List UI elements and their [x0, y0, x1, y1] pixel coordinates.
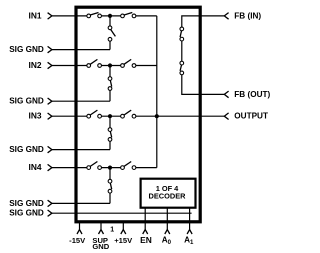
wire IN3 input [52, 115, 87, 117]
pin -15V wire [79, 222, 81, 230]
wire shunt to SIG GND 1 [109, 41, 111, 49]
svg-text:DECODER: DECODER [149, 191, 187, 200]
svg-text:SIG GND: SIG GND [9, 45, 44, 54]
svg-text:GND: GND [92, 242, 109, 251]
wire SIG GND 3 [52, 149, 110, 151]
wire shunt to SIG GND 3 [109, 141, 111, 149]
svg-text:1: 1 [110, 226, 114, 233]
wire row 2 mid [101, 65, 120, 67]
switch S5a (feedback) [180, 27, 184, 41]
pin +15V arrow [121, 230, 126, 234]
svg-text:IN4: IN4 [29, 162, 42, 172]
node row 1 junction [108, 14, 112, 18]
svg-text:SIG GND: SIG GND [9, 199, 44, 208]
pin A1 arrow [187, 230, 192, 234]
wire shunt stub row 2 [109, 66, 111, 77]
wire FB (OUT) [182, 75, 225, 95]
svg-text:IN2: IN2 [29, 60, 42, 70]
wire row 3 mid [101, 115, 120, 117]
switch S1b (series, output side) [121, 13, 136, 18]
terminal SIG GND 2 arrow [48, 98, 52, 104]
switch S3b (series, output side) [121, 110, 136, 118]
switch S4b (series, output side) [121, 162, 136, 170]
svg-text:+15V: +15V [114, 236, 133, 245]
pin A1 wire [189, 208, 191, 230]
wire shunt stub row 4 [109, 168, 111, 180]
switch S4c (shunt to SIG GND) [108, 179, 112, 193]
terminal SIG GND 5 arrow [48, 210, 52, 216]
wire output bus vertical [156, 16, 158, 168]
switch S1c (shunt to SIG GND) [108, 26, 115, 41]
terminal IN1 arrow [48, 13, 52, 19]
switch S2c (shunt to SIG GND) [108, 77, 112, 91]
wire OUTPUT [157, 115, 225, 117]
svg-text:IN1: IN1 [29, 10, 42, 20]
terminal IN2 arrow [48, 62, 52, 68]
svg-text:EN: EN [140, 235, 152, 245]
wire shunt stub row 3 [109, 116, 111, 128]
pin EN arrow [143, 230, 148, 234]
svg-text:OUTPUT: OUTPUT [234, 111, 268, 120]
wire SIG GND 1 [52, 49, 110, 51]
node row 3 junction [108, 114, 112, 118]
switch S3c (shunt to SIG GND) [108, 128, 112, 141]
svg-text:IN3: IN3 [29, 111, 42, 121]
decoder U1 box [141, 179, 196, 208]
node output junction [155, 114, 159, 118]
node row 4 junction [108, 166, 112, 170]
wire SIG GND 5 bus [52, 212, 192, 214]
node row 2 junction [108, 63, 112, 67]
wire row 2 to output bus [136, 65, 157, 67]
wire shunt to SIG GND 2 [109, 90, 111, 101]
pin +15V wire [122, 222, 124, 230]
pin SUP GND arrow [99, 230, 104, 234]
pin A0 arrow [165, 230, 170, 234]
svg-text:-15V: -15V [69, 236, 86, 245]
switch S3a (series, input side) [87, 110, 102, 118]
pin A0 wire [166, 208, 168, 230]
terminal IN3 arrow [48, 113, 52, 119]
terminal IN4 arrow [48, 164, 52, 170]
terminal FB (IN) arrow [224, 13, 228, 20]
svg-text:SIG GND: SIG GND [9, 209, 44, 218]
svg-text:FB (OUT): FB (OUT) [234, 90, 270, 99]
wire IN1 input [52, 15, 87, 17]
switch S2b (series, output side) [121, 59, 136, 67]
wire SIG GND 2 [52, 100, 110, 102]
outer device box [76, 7, 200, 222]
terminal OUTPUT arrow [224, 113, 228, 120]
pin SUP GND label [92, 236, 109, 251]
wire SIG GND 4 [52, 202, 110, 204]
svg-text:SIG GND: SIG GND [9, 97, 44, 106]
wire IN4 input [52, 167, 87, 169]
terminal FB (OUT) arrow [224, 91, 228, 98]
wire FB (IN) [182, 16, 225, 27]
wire row 1 mid [101, 15, 120, 17]
svg-text:FB (IN): FB (IN) [234, 11, 261, 20]
terminal SIG GND 3 arrow [48, 146, 52, 152]
wire row 4 to output bus [136, 167, 157, 169]
wire FB mid [181, 41, 183, 61]
wire row 3 to output bus [136, 115, 157, 117]
switch S1a (series, input side) [87, 13, 102, 18]
svg-text:SIG GND: SIG GND [9, 145, 44, 154]
switch S4a (series, input side) [87, 162, 102, 170]
wire shunt to SIG GND 4 [109, 193, 111, 203]
terminal SIG GND 1 arrow [48, 46, 52, 52]
pin -15V arrow [77, 230, 82, 234]
terminal SIG GND 4 arrow [48, 200, 52, 206]
pin SUP GND wire [100, 222, 102, 230]
wire row 1 to output bus [136, 15, 157, 17]
wire IN2 input [52, 65, 87, 67]
decoder U1 label [149, 184, 187, 200]
switch S5b (feedback) [180, 61, 184, 75]
wire shunt stub row 1 [109, 16, 111, 26]
pin EN wire [144, 208, 146, 230]
wire row 4 mid [101, 167, 120, 169]
switch S2a (series, input side) [87, 59, 102, 67]
